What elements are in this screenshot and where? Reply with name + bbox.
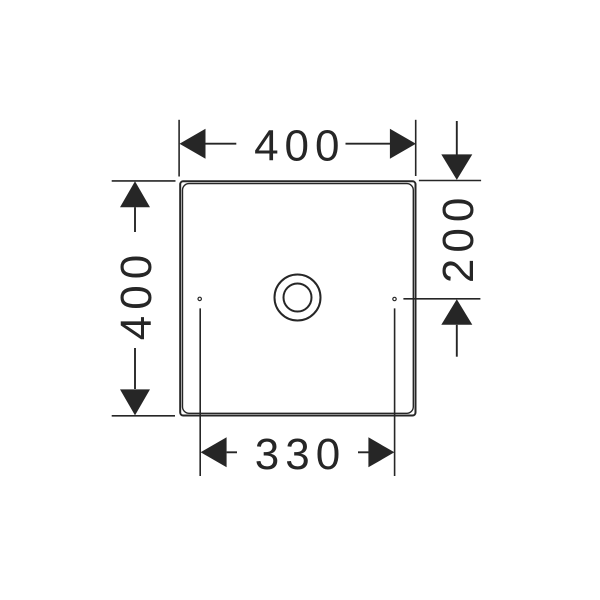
left dim arrow bottom <box>120 389 150 415</box>
drain outer circle <box>275 275 321 321</box>
left dim line top segment <box>134 207 136 232</box>
right dim arrow down <box>441 154 472 180</box>
svg-text:400: 400 <box>112 249 161 340</box>
svg-text:200: 200 <box>434 192 483 283</box>
top dim line right segment <box>346 143 391 145</box>
bottom dim arrow right <box>368 437 394 467</box>
svg-text:330: 330 <box>255 430 346 479</box>
basin outer outline <box>180 181 415 415</box>
svg-text:400: 400 <box>254 121 345 170</box>
right dim hole reference line <box>403 298 480 300</box>
right dim extension line top <box>419 180 481 182</box>
basin inner rim <box>183 184 414 414</box>
top dim extension line left <box>178 120 180 177</box>
right fixing hole <box>393 297 396 300</box>
left dim extension line top <box>112 180 176 182</box>
left fixing hole <box>198 297 201 300</box>
bottom dim arrow left <box>201 437 227 467</box>
drain inner circle <box>284 284 312 312</box>
right dim line upper segment <box>456 121 458 155</box>
top dim arrow right <box>390 129 416 159</box>
right dim arrow up <box>441 299 472 325</box>
left dim arrow top <box>120 181 150 207</box>
right dim line lower segment <box>456 325 458 357</box>
top dim arrow left <box>180 129 206 159</box>
bottom dim extension line right <box>394 308 396 476</box>
bottom dim extension line left <box>199 308 201 476</box>
bottom dim line right segment <box>358 451 369 453</box>
left dim line bottom segment <box>134 348 136 389</box>
top dim extension line right <box>415 120 417 176</box>
left dim extension line bottom <box>112 415 175 417</box>
top dim line left segment <box>206 143 237 145</box>
bottom dim line left segment <box>227 451 237 453</box>
